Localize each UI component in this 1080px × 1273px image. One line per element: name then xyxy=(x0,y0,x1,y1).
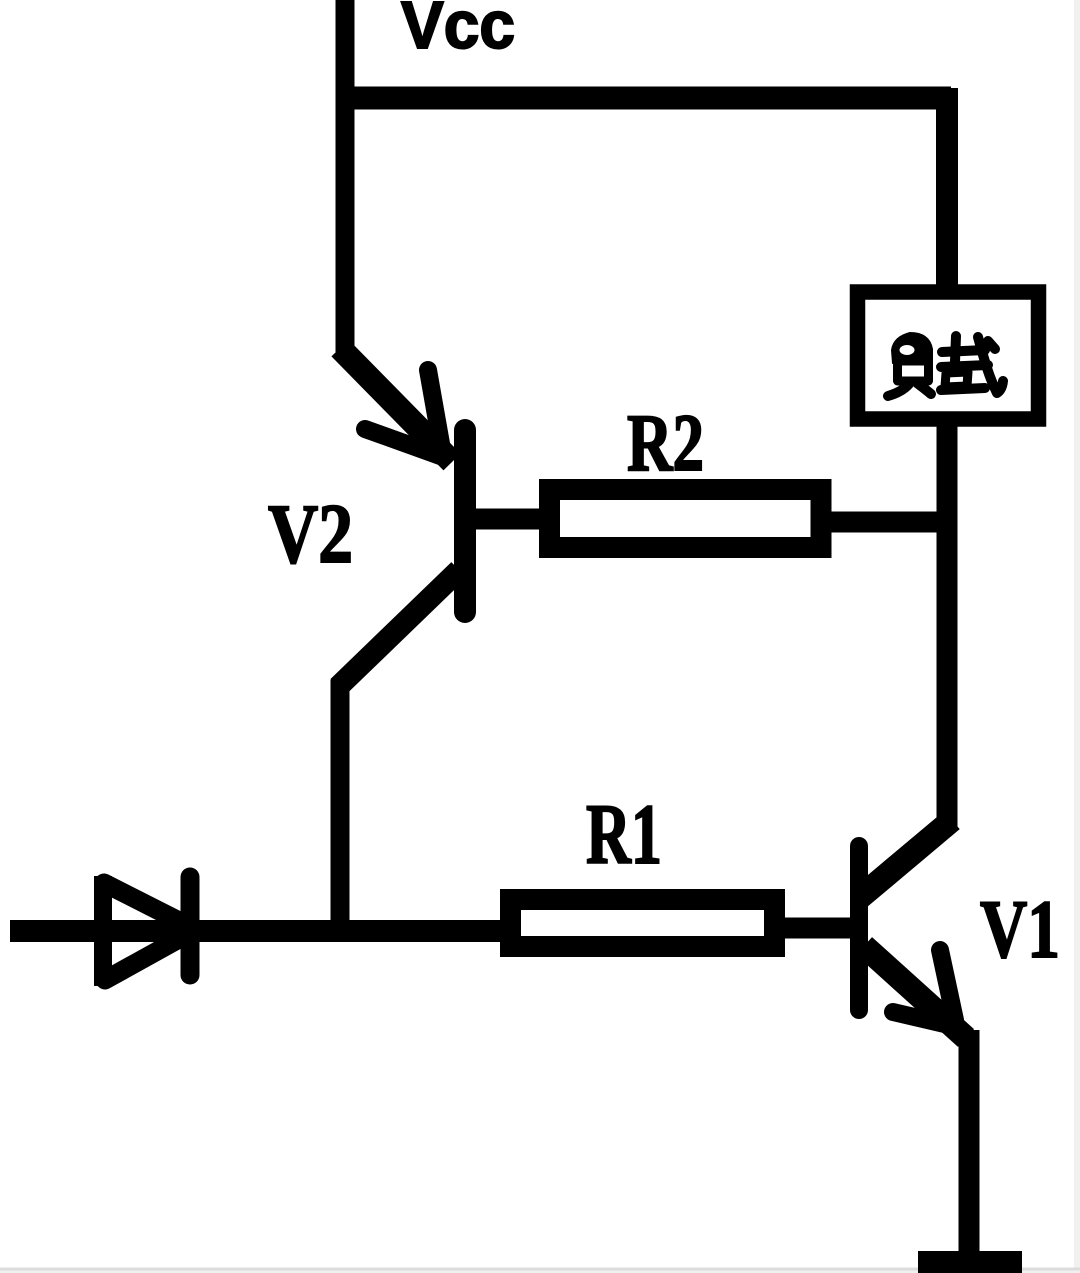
wire R1 to V1 base xyxy=(778,918,853,939)
V1 emitter arrow barb left xyxy=(893,1012,953,1026)
V2 emitter diagonal from Vcc rail xyxy=(340,348,452,462)
decorative right edge strip xyxy=(1074,0,1080,1273)
V2 base bar xyxy=(454,430,476,612)
wire V2 base to R2 xyxy=(472,509,560,530)
svg-text:V1: V1 xyxy=(980,883,1060,975)
wire R2 to right vertical xyxy=(823,512,950,533)
wire top horizontal Vcc to load xyxy=(336,87,951,110)
wire load box down to junction / V1 collector xyxy=(937,419,958,827)
resistor R1 xyxy=(511,900,775,947)
resistor R2 xyxy=(550,490,822,548)
svg-text:R2: R2 xyxy=(627,397,704,488)
diode D1 xyxy=(103,876,190,986)
svg-text:V2: V2 xyxy=(268,487,353,581)
load text 负 xyxy=(888,333,932,396)
wire right vertical down to load box xyxy=(936,88,958,292)
diode upper diagonal xyxy=(104,883,179,921)
diode cathode bar xyxy=(181,877,200,975)
wire Vcc rail vertical xyxy=(336,0,355,352)
load text 载 xyxy=(941,336,1003,393)
wire V1 emitter vertical down xyxy=(959,1030,980,1262)
diode anode bar xyxy=(94,876,112,986)
V1 emitter diagonal xyxy=(864,946,966,1038)
wire input horizontal (left) xyxy=(10,920,512,942)
V2 collector diagonal xyxy=(338,570,459,687)
V1 emitter arrow barb up xyxy=(940,950,955,1020)
transistor V2 xyxy=(338,348,465,687)
decorative bottom edge strip xyxy=(0,1268,1080,1271)
transistor V1 xyxy=(858,820,966,1038)
ground xyxy=(918,1251,1022,1273)
V2 emitter arrow barb left xyxy=(365,429,443,457)
svg-text:Vcc: Vcc xyxy=(401,0,515,63)
wire V2 collector vertical down xyxy=(331,680,350,941)
V1 collector diagonal xyxy=(858,820,952,899)
diode lower diagonal xyxy=(105,939,179,980)
V1 base bar xyxy=(850,846,868,1010)
V2 emitter arrow barb up xyxy=(428,370,443,455)
load box 负载 xyxy=(858,292,1039,419)
diode apex junction blob xyxy=(164,918,188,942)
svg-text:R1: R1 xyxy=(586,786,662,882)
